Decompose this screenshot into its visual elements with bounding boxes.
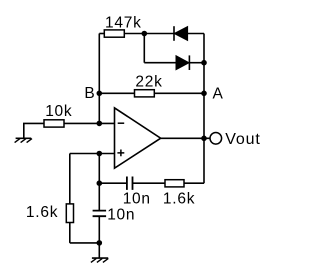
junction at bottom ground node — [97, 240, 103, 246]
diode D2 cathode bar — [188, 55, 190, 70]
junction at output node — [201, 136, 207, 142]
junction at 147k output — [142, 31, 148, 37]
svg-text:B: B — [84, 85, 95, 102]
wire non-inverting input — [70, 153, 115, 155]
wire diode-loop left vertical — [143, 34, 145, 63]
resistor 1.6k (vertical) body — [66, 204, 73, 223]
svg-text:1.6k: 1.6k — [26, 204, 58, 221]
junction node B — [97, 91, 103, 97]
wire top middle segment — [124, 33, 174, 35]
svg-text:A: A — [213, 85, 224, 102]
diode D1 (points left) triangle — [174, 27, 187, 41]
ground GND1 bar — [16, 137, 32, 139]
resistor 22k body — [135, 90, 155, 97]
svg-text:Vout: Vout — [225, 131, 260, 148]
wire lower diode left segment — [144, 62, 176, 64]
wire node B to R 22k — [99, 92, 134, 94]
capacitor 10n (vertical) plates — [93, 211, 107, 217]
capacitor 10n (horizontal) plates — [127, 177, 133, 190]
wire bottom ground stem — [98, 243, 100, 258]
wire R 10k to inverting input — [64, 122, 115, 124]
wire top right segment — [188, 33, 205, 35]
diode D1 cathode bar — [173, 26, 175, 41]
junction at non-inverting input — [97, 151, 103, 157]
resistor 1.6k (horizontal) body — [165, 180, 184, 187]
wire right vertical rail — [203, 34, 205, 184]
wire middle vertical upper (plus node down to cap) — [98, 154, 100, 211]
wire middle vertical lower — [98, 216, 100, 243]
diode D2 (points right) triangle — [176, 56, 189, 70]
junction at inverting input — [97, 121, 103, 127]
ground GND2 hatch strokes — [91, 258, 108, 262]
wire op-amp output to Vout — [161, 137, 210, 139]
wire left branch upper vertical — [69, 154, 71, 204]
wire R 1.6k to right rail corner — [184, 182, 204, 184]
svg-text:10n: 10n — [107, 206, 135, 223]
svg-text:147k: 147k — [105, 15, 142, 32]
op-amp minus sign — [118, 122, 125, 124]
ground GND1 hatch strokes — [15, 139, 32, 143]
wire left branch lower vertical — [69, 223, 71, 243]
svg-text:10n: 10n — [123, 191, 151, 208]
junction at diode D2 cathode — [201, 60, 207, 66]
wire top-left segment to R 147k — [99, 33, 104, 35]
wire left vertical rail (B rail) — [98, 34, 100, 124]
junction at RC tee — [97, 180, 103, 186]
wire R 22k to node A — [154, 92, 204, 94]
wire plus-node tee to C 10n horizontal — [99, 182, 127, 184]
resistor 10k body — [44, 120, 64, 127]
ground GND2 bar — [92, 257, 108, 259]
Vout terminal circle — [210, 133, 222, 145]
svg-text:1.6k: 1.6k — [163, 191, 195, 208]
wire cap to R 1.6k horizontal — [133, 182, 166, 184]
svg-text:10k: 10k — [45, 103, 72, 120]
wire bottom connecting segment — [70, 242, 100, 244]
svg-text:22k: 22k — [135, 74, 162, 91]
wire lower diode right segment — [189, 62, 204, 64]
wire ground corner to R 10k — [24, 123, 44, 138]
op-amp plus sign — [117, 150, 124, 157]
resistor 147k body — [104, 30, 124, 37]
op-amp U1 triangle — [115, 108, 161, 168]
junction node A — [201, 91, 207, 97]
